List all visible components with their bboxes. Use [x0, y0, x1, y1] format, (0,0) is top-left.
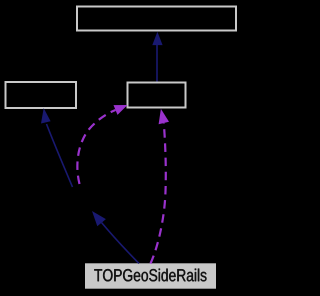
- wire: curved shaft: [47, 124, 73, 187]
- node: TOPGeoSideRails (current class, grey box): [85, 263, 216, 288]
- arrowhead at middle box left edge: [114, 105, 128, 115]
- node: top base-class box (empty black box): [77, 7, 236, 31]
- arrowhead at middle box bottom: [159, 109, 169, 124]
- label: TOPGeoSideRails text: [94, 269, 206, 282]
- wire: dashed curved shaft: [151, 123, 166, 264]
- usage arrow: TOPGeoSideRails to middle box (dashed purple, curved): [151, 109, 170, 264]
- wire: vertical shaft: [156, 44, 158, 82]
- wire: dashed curved shaft: [77, 110, 115, 184]
- wire: straight shaft: [102, 223, 139, 264]
- arrowhead at top box: [152, 32, 162, 45]
- arrowhead at left box: [41, 108, 51, 123]
- inheritance arrow: hidden node to left box (solid blue, curved): [41, 108, 73, 187]
- usage arrow: hidden node to middle box (dashed purple, curved): [77, 105, 127, 184]
- inheritance arrow: middle box to top box (solid blue): [152, 32, 162, 82]
- arrowhead at hidden node: [92, 211, 106, 226]
- node: middle class box (empty black box): [128, 83, 186, 108]
- inheritance arrow: TOPGeoSideRails to hidden node (solid blue): [92, 211, 139, 264]
- node: left base-class box (empty black box): [6, 82, 77, 108]
